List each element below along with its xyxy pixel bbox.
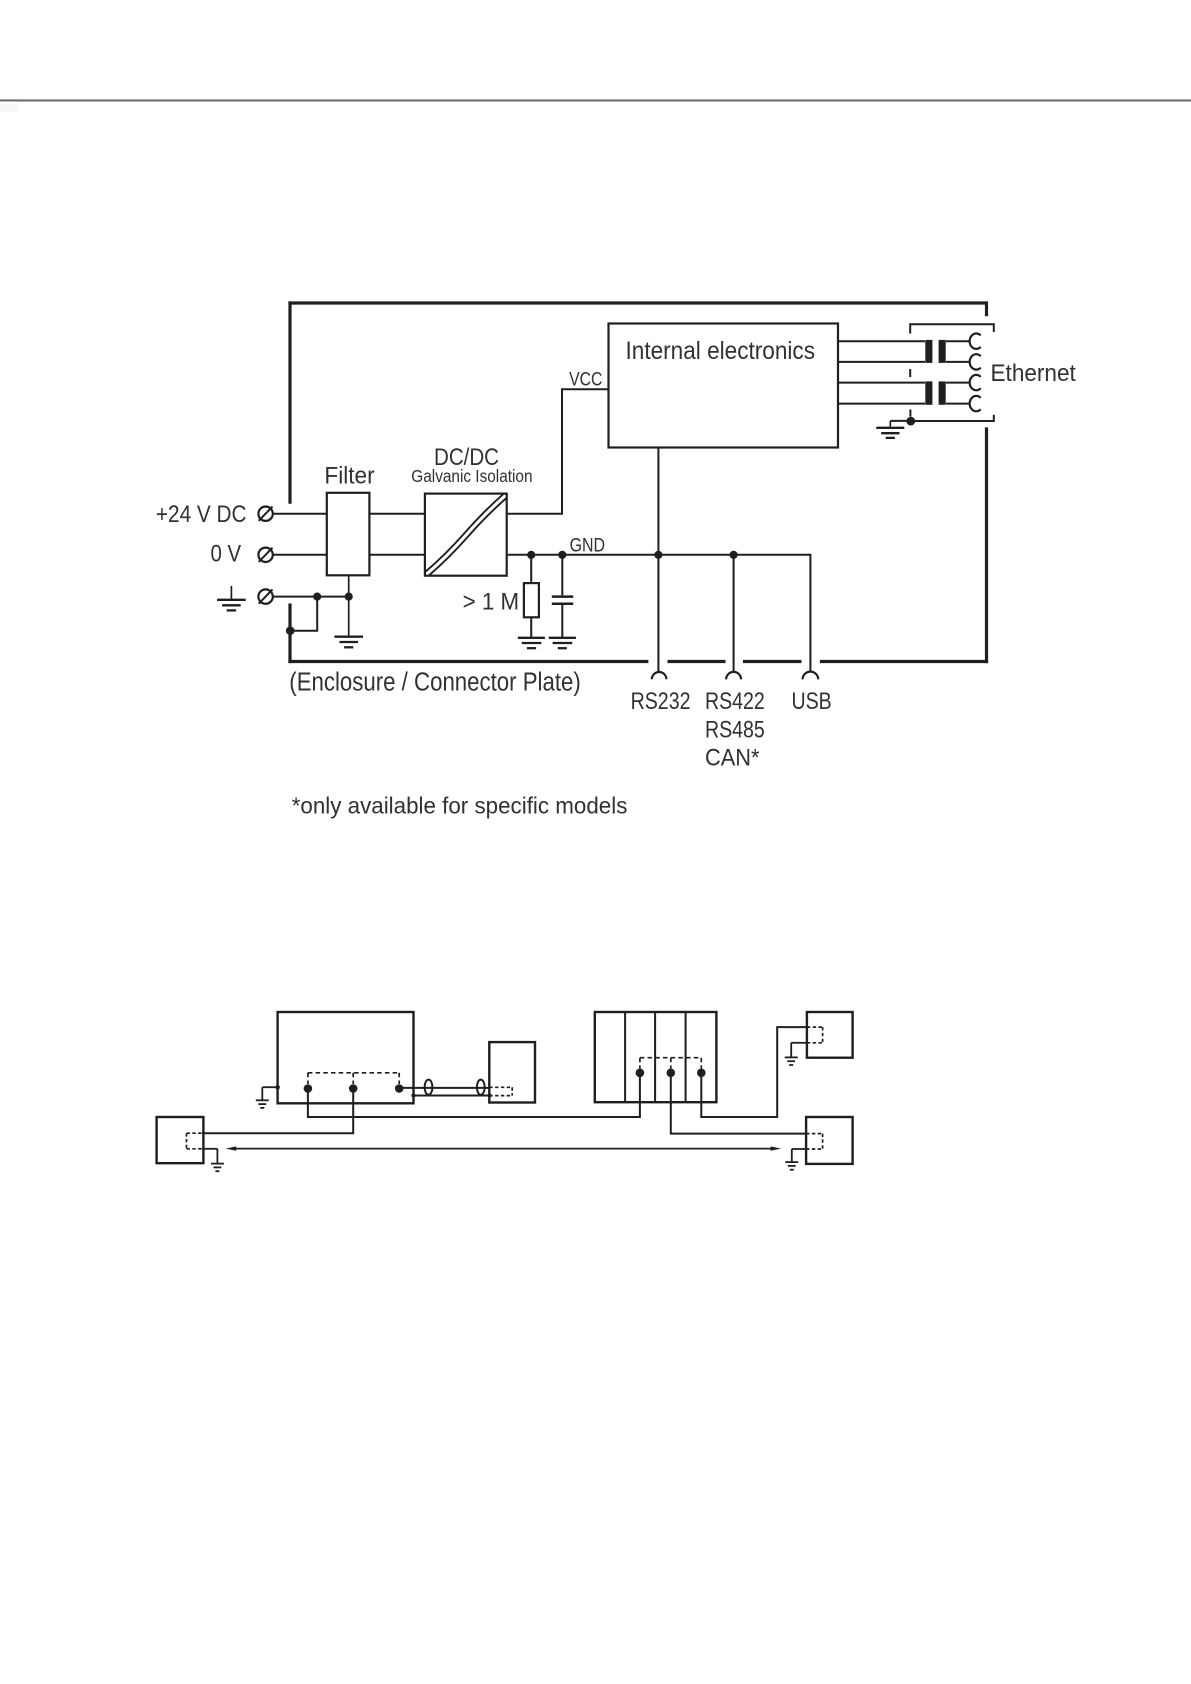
node earth junctions	[313, 593, 321, 601]
wires filter to DC/DC	[369, 513, 425, 515]
resistor >1M	[530, 555, 532, 583]
svg-text:Galvanic Isolation: Galvanic Isolation	[411, 466, 532, 486]
equipotential double arrow	[233, 1148, 774, 1150]
svg-text:0 V: 0 V	[211, 541, 242, 568]
terminal earth	[258, 589, 272, 603]
wire +24V terminal to filter	[273, 513, 327, 515]
svg-text:> 1 M: > 1 M	[463, 588, 519, 615]
svg-text:RS422: RS422	[705, 688, 765, 715]
svg-text:*only available for specific m: *only available for specific models	[292, 792, 628, 818]
svg-text:Ethernet: Ethernet	[991, 360, 1077, 387]
svg-text:CAN*: CAN*	[705, 744, 760, 771]
transformer T2 core bars (lower pair)	[925, 381, 932, 404]
faint strip below rule	[0, 104, 18, 113]
wire ethernet pair 2	[838, 361, 925, 363]
dashed internal link M	[640, 1057, 701, 1059]
cable ferrite oval 1	[425, 1080, 433, 1095]
node B1 chassis stub	[275, 1085, 280, 1090]
wire USB drop	[809, 554, 811, 672]
svg-text:(Enclosure / Connector Plate): (Enclosure / Connector Plate)	[289, 668, 581, 696]
node B1 terminals	[304, 1084, 313, 1093]
box M (DIN module bank)	[595, 1012, 717, 1102]
enclosure bottom edge segments with gaps for RS232/RS422/USB lines	[288, 660, 648, 663]
ground: capacitor	[549, 637, 576, 639]
wire 0V terminal to filter	[273, 554, 327, 556]
wire ethernet pair 4	[838, 403, 925, 405]
cable to box B2 (two conductors)	[399, 1087, 489, 1089]
box B2	[489, 1042, 535, 1102]
svg-text:RS232: RS232	[631, 688, 691, 715]
dashed internal link B1	[308, 1072, 399, 1074]
wire earth branch to enclosure	[291, 597, 317, 631]
svg-text:USB: USB	[792, 688, 832, 715]
transformer secondary winding arcs	[970, 334, 981, 349]
svg-text:VCC: VCC	[569, 370, 602, 391]
wire B1 terminal1 to module M terminal1	[308, 1073, 640, 1117]
top horizontal page rule	[0, 99, 1191, 101]
wire VCC net: DC/DC output to internal electronics	[508, 389, 609, 513]
enclosure / connector plate outline	[288, 301, 986, 304]
node M terminals	[636, 1069, 645, 1078]
module dividers	[624, 1012, 626, 1102]
cable ferrite oval 2	[477, 1080, 485, 1095]
ground: B1 chassis	[262, 1086, 277, 1088]
dashed connector in RB3	[806, 1133, 823, 1135]
wire: internal electronics to GND bus	[657, 448, 659, 556]
Ethernet connector bracket top	[910, 323, 994, 325]
svg-text:Filter: Filter	[324, 463, 374, 490]
box RB2 (top right)	[807, 1012, 853, 1058]
box Filter	[327, 493, 370, 576]
wire RS422 drop	[733, 555, 735, 672]
wire M terminal2 to remote box RB3	[671, 1073, 806, 1134]
ground: RB1	[202, 1148, 218, 1150]
connector arc RS422	[726, 672, 741, 679]
node: ethernet shield junction	[906, 417, 915, 426]
capacitor C1	[561, 555, 563, 596]
dashed connector in RB2	[807, 1026, 823, 1028]
wire ethernet pair 3	[838, 382, 925, 384]
box U1 Internal electronics	[609, 324, 839, 448]
isolation diagonal double line	[426, 494, 504, 571]
terminal +24V DC	[258, 507, 272, 521]
terminal 0V	[258, 548, 272, 562]
svg-text:RS485: RS485	[705, 716, 765, 743]
ground: filter	[348, 575, 350, 636]
ground: resistor	[518, 637, 545, 639]
svg-text:GND: GND	[570, 535, 606, 556]
wire earth terminal bus	[273, 596, 349, 598]
transformer T1 core bars (upper pair)	[925, 340, 932, 363]
svg-text:+24 V DC: +24 V DC	[156, 501, 247, 528]
Ethernet connector bracket left dashes	[909, 369, 911, 377]
connector arc USB	[803, 672, 819, 680]
earth symbol at terminal	[230, 586, 232, 600]
ground: RB2	[791, 1042, 807, 1044]
box RB3 (bottom right)	[806, 1117, 853, 1164]
ground: ethernet shield	[890, 420, 906, 422]
wire GND bus	[508, 554, 811, 556]
box DC/DC galvanic isolation	[425, 494, 507, 576]
wire RS232 drop	[657, 555, 659, 672]
Ethernet connector bracket bottom	[909, 420, 994, 422]
dashed connector in B2	[489, 1086, 512, 1088]
node on enclosure edge	[286, 626, 295, 635]
ground: RB3	[792, 1148, 806, 1150]
box B1 (device with 3 shield terminals)	[278, 1012, 414, 1103]
dashed connector in RB1	[187, 1132, 202, 1134]
connector arc RS232	[652, 672, 667, 679]
svg-text:Internal electronics: Internal electronics	[626, 337, 816, 365]
wire ethernet pair 1	[838, 340, 925, 342]
node GND junctions	[527, 551, 535, 559]
wire M terminal3 to remote box RB2	[701, 1027, 807, 1117]
box RB1 (bottom left)	[157, 1117, 204, 1163]
wire B1 terminal2 to remote box RB1	[202, 1089, 353, 1134]
